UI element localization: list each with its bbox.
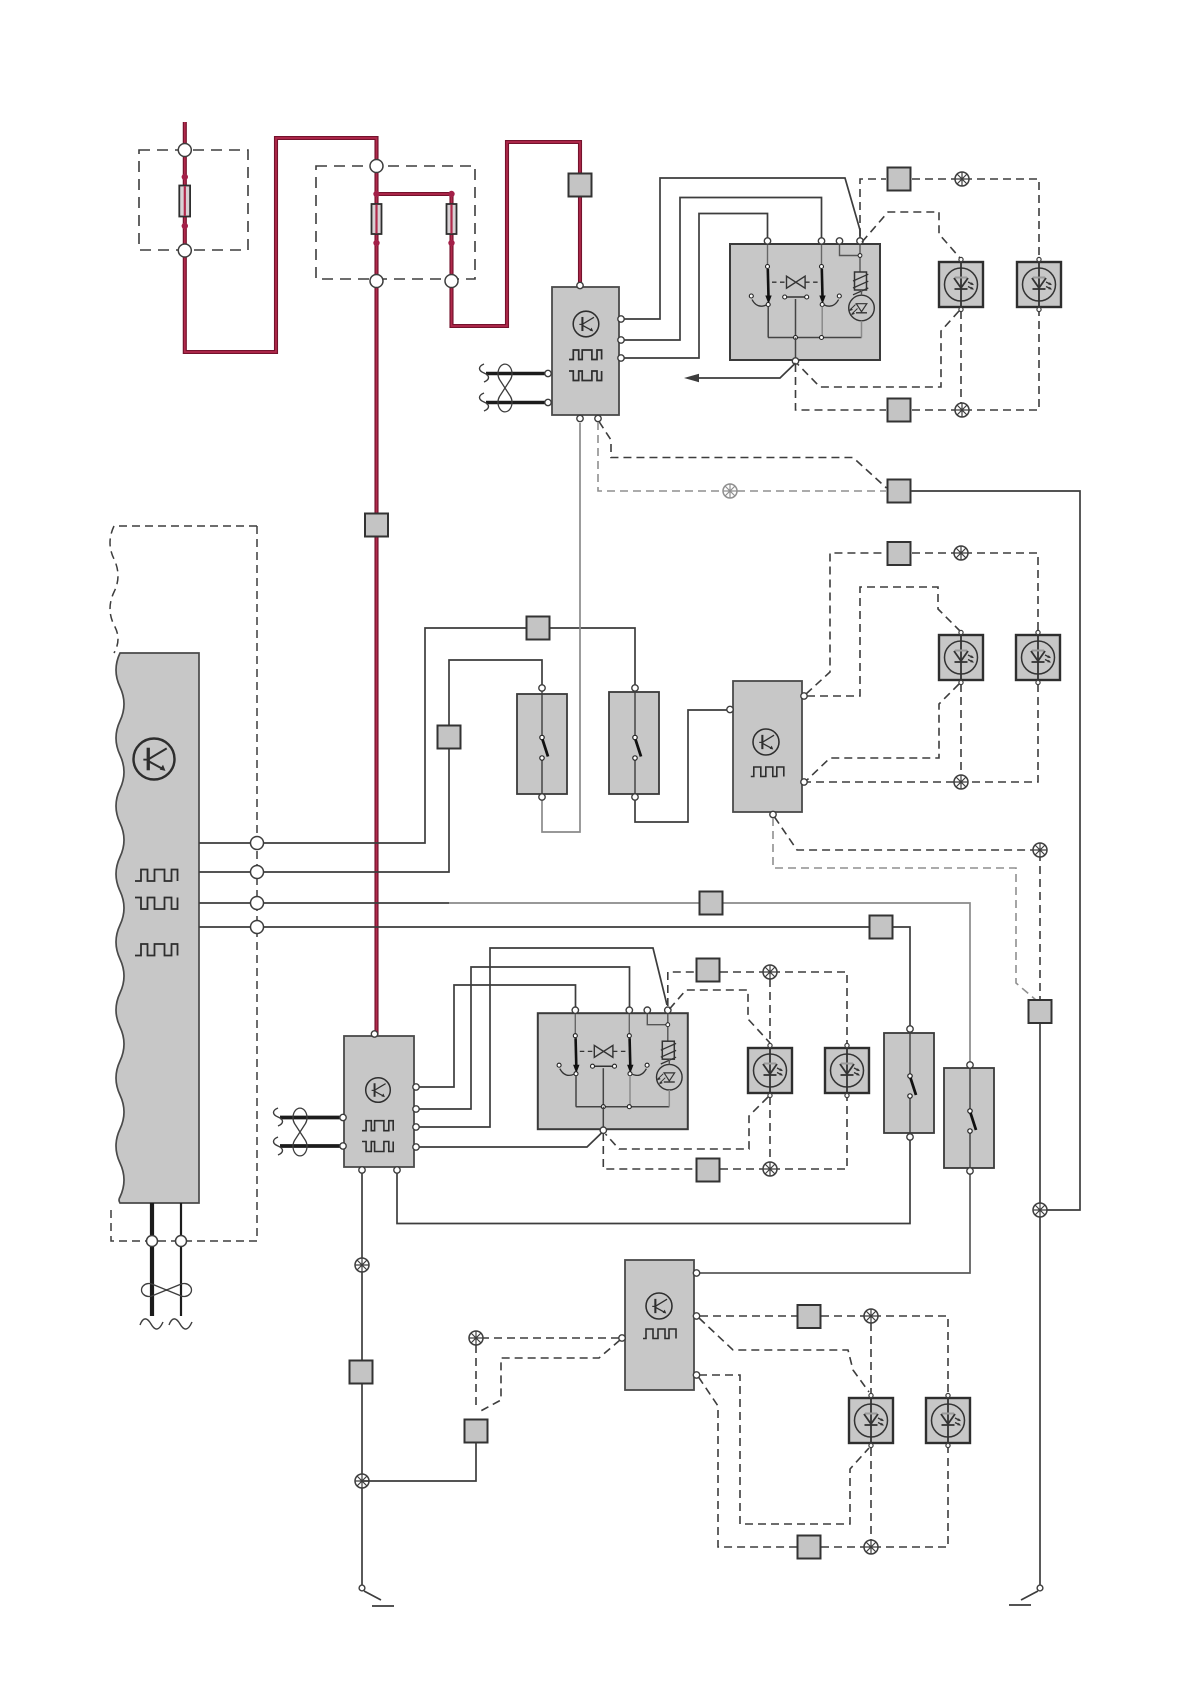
splice on ground wire xyxy=(355,1258,369,1272)
connector C8 xyxy=(798,1305,821,1328)
ground G1 xyxy=(359,1585,365,1591)
module U5 xyxy=(619,1260,700,1390)
switch S3 xyxy=(884,1026,934,1140)
gray dashed wire U3 bottom pin to connector C7 xyxy=(773,818,1036,1000)
wire switch S2 bottom to module U3 xyxy=(635,710,728,822)
dashed wire K2 pin4 to connector C13 and lamp E8 top xyxy=(668,972,847,1045)
splice S12 xyxy=(954,775,968,789)
dashed wire lamp E3 bottom to U3 pin2 xyxy=(807,684,959,780)
splice S9 xyxy=(763,965,777,979)
splice S6 xyxy=(864,1540,878,1554)
wire U1 pin3 to switch S4 to module U5 xyxy=(199,902,449,904)
arrow output from relay K1 xyxy=(688,363,796,378)
pulse glyph U1 c xyxy=(135,944,178,956)
lamp E6 xyxy=(926,1393,970,1447)
switch S4 xyxy=(944,1062,994,1174)
pulse glyph U1 b xyxy=(135,898,178,910)
connector T1 xyxy=(888,168,911,191)
dashed wire U5 left pin to splice S8 and connector C10 xyxy=(476,1338,619,1409)
wire U4 pin1 to relay K2 pin1 xyxy=(419,985,576,1087)
wire C10 to splice S7 xyxy=(362,1443,476,1482)
lamp E3 xyxy=(939,630,983,684)
wire U4 pin3 to relay K2 pin4 xyxy=(419,948,667,1127)
wire U2 pin c to relay K1 pin1 xyxy=(624,214,768,359)
relay K2 xyxy=(538,1007,688,1133)
wire module U2 lower-left pin to switch S1 bottom xyxy=(542,423,580,832)
dashed wire relay K2 bottom to connector C12 and lamp E8 bottom xyxy=(603,1097,847,1169)
twisted pair at module U2 xyxy=(480,364,546,412)
module U3 xyxy=(727,681,807,818)
splice S8 xyxy=(469,1331,483,1345)
twisted pair at module U4 xyxy=(274,1108,342,1156)
splice S10 xyxy=(763,1162,777,1176)
splice S1 xyxy=(955,172,969,186)
connector C10 xyxy=(465,1420,488,1443)
splice S5 xyxy=(864,1309,878,1323)
lamp E8 xyxy=(825,1043,869,1097)
dashed wire U5 left pin detour to connector C10 xyxy=(477,1340,620,1413)
dashed wire U5 pin3 to connector C9 and lamp E6 bottom xyxy=(699,1377,949,1547)
wire U2 pin a to relay K1 pin4 xyxy=(624,178,860,319)
dashed wire lamp E3 bottom to splice S12 xyxy=(960,684,962,782)
dashed harness box around U1 xyxy=(110,526,257,1241)
switch S1 xyxy=(517,685,567,800)
lamp E2 xyxy=(1017,257,1061,311)
lamp E7 xyxy=(748,1043,792,1097)
wire T3 to right rail and ground G2 xyxy=(911,491,1080,1585)
pulse glyph U1 a xyxy=(135,870,178,882)
dashed wire U3 pin1 diagonal to lamp E3 top xyxy=(807,587,960,696)
dashed wire splice S9 to lamp E7 top xyxy=(769,979,771,1045)
dashed wire lamp E4 bottom to U3 pin2 xyxy=(807,684,1038,782)
wire U1 pin1 to C4 to switch S2 xyxy=(199,628,635,843)
gray dashed wire U2 bottom pin via splice S3 to T3 xyxy=(598,422,886,491)
module U2 xyxy=(545,282,624,421)
connector T4 xyxy=(888,542,911,565)
splice S2 xyxy=(955,403,969,417)
connector C11 xyxy=(350,1361,373,1384)
fuse holder dashed box A xyxy=(139,150,248,250)
connector C7 xyxy=(1029,1000,1052,1023)
switch S2 xyxy=(609,685,659,800)
connector C6 on wire3 xyxy=(700,892,723,915)
wire U4 pin4 to relay K2 bottom pin xyxy=(419,1133,602,1147)
dashed wire U3 pin1 to T4, lamp E4 top xyxy=(806,553,1038,694)
connector C4 on wire1 xyxy=(527,617,550,640)
splice S3 xyxy=(723,484,737,498)
splice S11 xyxy=(954,546,968,560)
harness pin circles on dashed box xyxy=(251,837,264,850)
dashed wire lamp E7 bottom to relay K2 bottom xyxy=(606,1097,769,1149)
splice S7 xyxy=(355,1474,369,1488)
connector T3 xyxy=(888,480,911,503)
dashed wire K1 pin4 to connector T1 and lamp E2 xyxy=(860,179,1039,258)
connector T2 xyxy=(888,399,911,422)
wire U4 pin2 to relay K2 pin2 xyxy=(419,967,630,1109)
relay K1 xyxy=(730,238,880,364)
connector C13 xyxy=(697,959,720,982)
fuse holder dashed box B xyxy=(316,166,475,279)
dashed wire lamp E7 bottom to splice S10 xyxy=(769,1097,771,1169)
wire U4 bottom-left pin to ground G1 xyxy=(361,1173,363,1585)
connector C9 xyxy=(798,1536,821,1559)
wire U1 pin2 to C5 to switch S1 xyxy=(199,660,542,872)
module U1 central electronic module (wavy) xyxy=(116,653,199,1203)
module U4 xyxy=(340,1031,419,1173)
wire red branch to module U4 xyxy=(374,281,378,1035)
dashed wire splice S5 to lamp E5 top xyxy=(870,1323,872,1393)
connector C12 xyxy=(697,1159,720,1182)
ground G2 xyxy=(1037,1585,1043,1591)
fuse F1 xyxy=(179,186,190,217)
dashed wire K2 pin4 diagonal to lamp E7 top xyxy=(670,990,771,1043)
wire U2 pin b to relay K1 pin2 xyxy=(624,198,822,341)
wire U1 pin4 to switch S3 to module U4 xyxy=(199,927,910,1224)
fuse F2 xyxy=(372,204,382,234)
dashed wire U5 pin2 diagonal to lamp E5 top xyxy=(699,1318,869,1392)
lamp E5 xyxy=(849,1393,893,1447)
transistor symbol U1 xyxy=(134,739,175,780)
connector on red branch mid xyxy=(365,514,388,537)
dashed wire lamp E5 bottom to splice S6 xyxy=(870,1448,872,1547)
splice S4 xyxy=(1033,843,1047,857)
lamp E4 xyxy=(1016,630,1060,684)
connector on red feed top xyxy=(569,174,592,197)
dashed wire U2 bottom pin to connector T3 xyxy=(599,422,887,489)
dashed wire U5 pin2 to connector C8 and lamp E6 top xyxy=(700,1316,948,1393)
connector C14 on wire4 xyxy=(870,916,893,939)
dashed wire lamp E1 bottom to splice S2 xyxy=(960,311,962,410)
dashed wire lamp E1 bottom to relay K1 bottom xyxy=(798,311,960,387)
wire battery feed red main xyxy=(185,122,580,352)
lamp E1 xyxy=(939,257,983,311)
splice on right rail xyxy=(1033,1203,1047,1217)
dashed wire U5 pin3 elbow to lamp E5 bottom xyxy=(699,1375,869,1524)
twisted pair below U1 xyxy=(150,1203,154,1316)
connector C5 on wire2 xyxy=(438,726,461,749)
dashed wire K1 pin4 diagonal to lamp E1 xyxy=(862,212,960,258)
fuse F3 xyxy=(447,204,457,234)
dashed wire relay K1 bottom to connector T2 and lamp E2 bottom xyxy=(796,311,1040,410)
dashed wire U3 bottom pin to splice S4 and connector C7 xyxy=(775,817,1041,1000)
